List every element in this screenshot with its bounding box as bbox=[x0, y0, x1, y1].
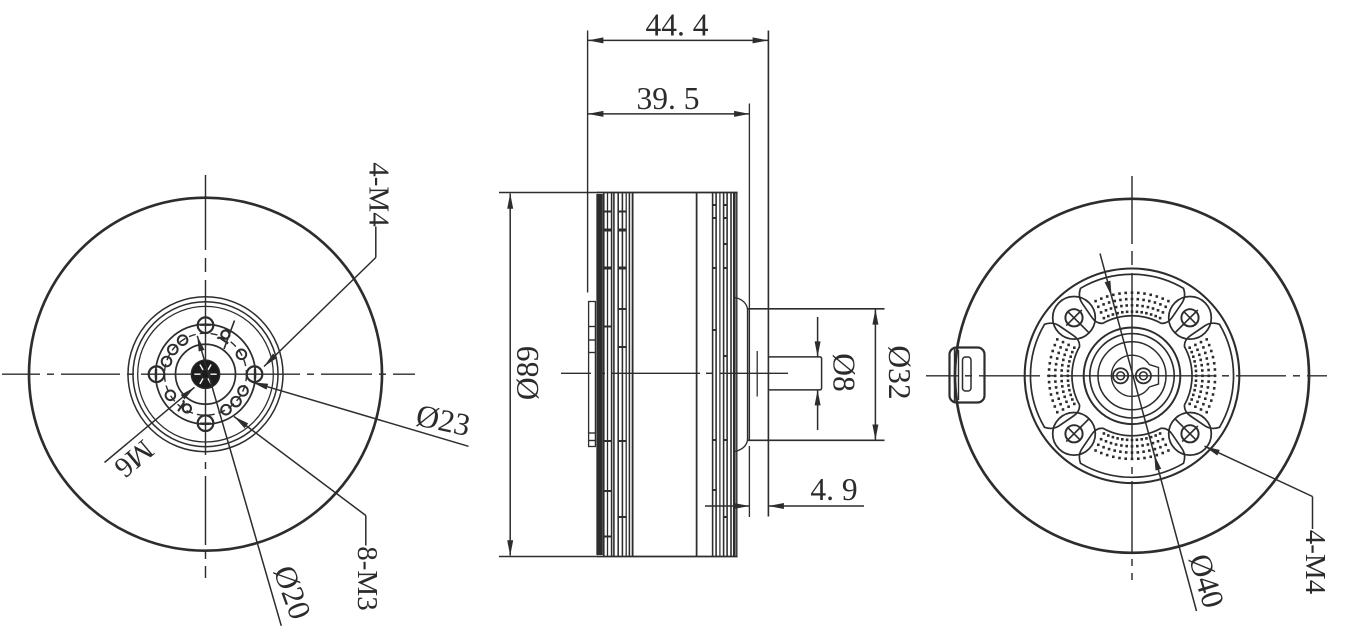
dimension 39.5 bbox=[588, 81, 750, 117]
shaft end set screw holes bbox=[1113, 368, 1128, 383]
fillet top bbox=[735, 298, 747, 310]
magnet window lobes with vent dots bbox=[1184, 323, 1233, 428]
cooling fin lines (right) bbox=[712, 193, 714, 556]
4-M4 screws (right view) bbox=[1181, 309, 1198, 326]
left view: rotor rear face bbox=[2, 175, 415, 578]
flange right face (boss band only) bbox=[747, 309, 749, 441]
bearing boss circles bbox=[1084, 328, 1181, 425]
balance mark a (upper right) bbox=[217, 329, 233, 345]
dimension 4.9 bbox=[705, 472, 864, 509]
dimension 44.4 bbox=[588, 8, 769, 293]
cable exit tab bbox=[950, 348, 985, 403]
4.9 left extension line bbox=[748, 446, 750, 517]
center M6 threaded hole (black) bbox=[191, 360, 220, 389]
svg-text:Ø40: Ø40 bbox=[1182, 550, 1231, 612]
leader D23 (left view) bbox=[253, 382, 474, 446]
boss top edge / D32 extension bbox=[748, 308, 885, 310]
body top edge bbox=[597, 192, 738, 194]
leader 8-M3 (left view) bbox=[234, 417, 383, 611]
svg-text:4-M4: 4-M4 bbox=[362, 162, 394, 227]
svg-text:8-M3: 8-M3 bbox=[351, 546, 383, 610]
4-M4 holes bbox=[247, 366, 263, 382]
shaft bbox=[768, 357, 821, 390]
fin vent ticks (right) bbox=[713, 204, 717, 206]
centerline horizontal (middle view) bbox=[561, 372, 591, 374]
hub third ring bbox=[138, 306, 274, 442]
shaft center tick bbox=[756, 351, 758, 397]
fin vent ticks (left) bbox=[604, 211, 612, 213]
screw pockets bbox=[1169, 297, 1212, 340]
svg-text:M6: M6 bbox=[108, 433, 159, 483]
outer circle D89 (right view) bbox=[955, 199, 1309, 553]
leader M6 (left view) bbox=[105, 387, 195, 483]
leader 4-M4 (left view) bbox=[264, 162, 394, 366]
bolt circle D23 solid bbox=[156, 324, 256, 424]
fillet bottom bbox=[735, 440, 747, 452]
bell left edge (thick) bbox=[596, 194, 602, 555]
boss bottom edge / D32 extension bbox=[748, 439, 885, 441]
rotor hub ring bbox=[1025, 269, 1240, 484]
dimension D32 bbox=[872, 309, 917, 441]
boss right edge / 44.4+4.9 extension bbox=[767, 31, 769, 517]
svg-text:Ø89: Ø89 bbox=[510, 346, 545, 400]
outer circle D89 (left view) bbox=[29, 198, 382, 551]
centerline horizontal (left view) bbox=[2, 373, 40, 375]
body bottom edge bbox=[597, 556, 738, 558]
centerline vertical (left view) bbox=[205, 175, 207, 250]
inner face circle bbox=[1098, 342, 1166, 410]
extension lines D89 bbox=[499, 192, 598, 194]
balance mark a (lower left) bbox=[176, 400, 192, 416]
centerline vertical (right view) bbox=[1131, 176, 1133, 244]
svg-text:Ø23: Ø23 bbox=[413, 397, 473, 443]
bell left lip bbox=[589, 302, 596, 447]
svg-text:4-M4: 4-M4 bbox=[1299, 530, 1331, 595]
39.5 extension line bbox=[748, 104, 750, 441]
leader D40 (right view) bbox=[1100, 254, 1231, 612]
retaining clip bbox=[1111, 355, 1158, 396]
dimension D89 bbox=[509, 194, 511, 556]
middle view: motor side elevation bbox=[499, 31, 885, 557]
cylinder right face bbox=[696, 193, 698, 556]
svg-text:Ø8: Ø8 bbox=[827, 353, 862, 392]
leader D20 (left view) bbox=[197, 336, 318, 626]
hub outer ring circles bbox=[128, 297, 283, 452]
svg-text:39. 5: 39. 5 bbox=[637, 81, 700, 116]
cooling fin lines (left) bbox=[603, 193, 605, 556]
slash mark near a bbox=[224, 321, 235, 350]
inner boss circle bbox=[176, 344, 236, 404]
svg-text:Ø20: Ø20 bbox=[267, 561, 318, 624]
svg-text:44. 4: 44. 4 bbox=[646, 8, 709, 43]
bolt circle D20 dashed bbox=[165, 333, 247, 415]
svg-text:4. 9: 4. 9 bbox=[810, 472, 857, 507]
svg-text:Ø32: Ø32 bbox=[882, 345, 917, 399]
dimension D8 bbox=[815, 317, 862, 430]
8-M3 holes bbox=[237, 350, 247, 360]
centerline horizontal (right view) bbox=[926, 375, 958, 377]
right view: rotor front face bbox=[926, 176, 1327, 580]
leader 4-M4 (right view) bbox=[1205, 446, 1331, 595]
